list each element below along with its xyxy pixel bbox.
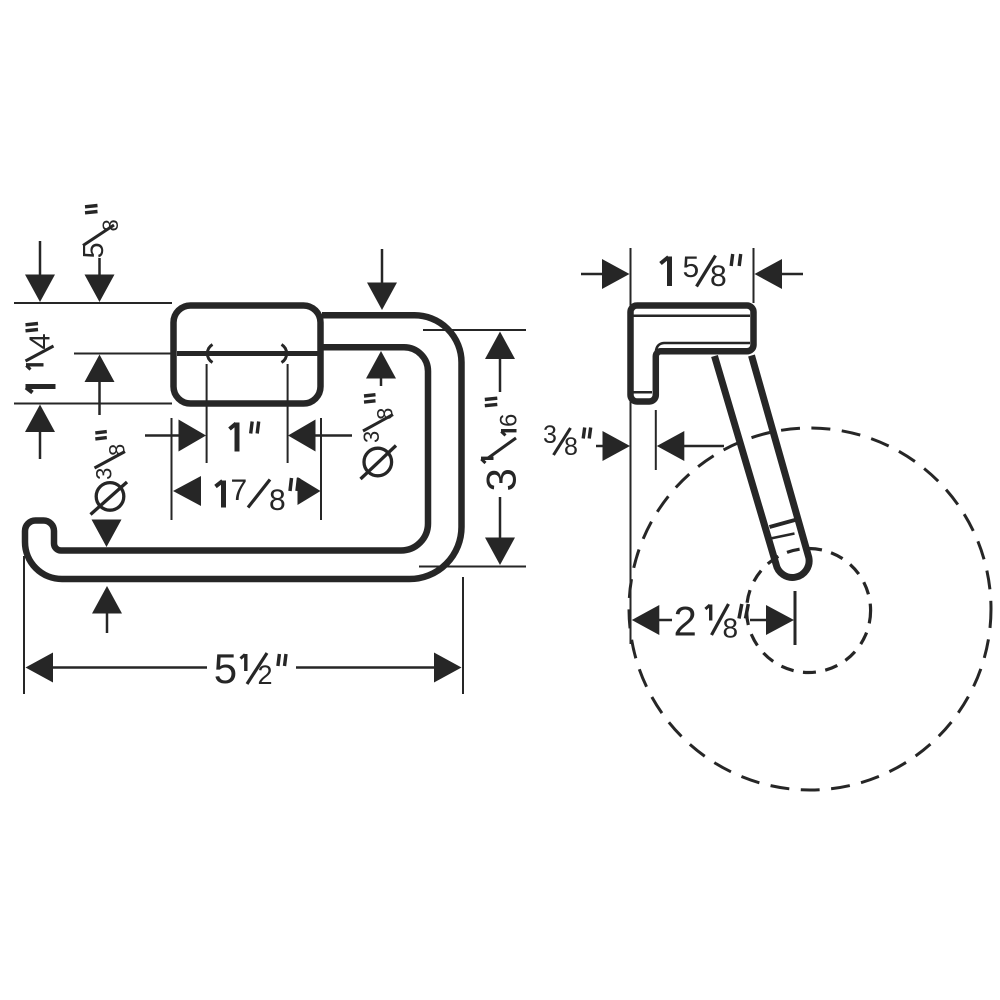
extension line 3 1/16" bottom [419, 566, 526, 568]
left view: bar outline (roll rail with hook end) [25, 315, 462, 579]
dimension 1 5/8" left arrow [581, 259, 630, 289]
svg-text:3: 3 [359, 431, 384, 443]
right view: arm cap joint thin line [771, 534, 795, 539]
dimension 5/8" upper arrow [85, 258, 115, 302]
dimension 3 1/16" bottom arrow [485, 497, 515, 565]
dimension Ø3/8" top-rail lower arrow [366, 351, 396, 386]
extension line from slot right mark down [287, 364, 289, 463]
svg-text:6: 6 [496, 414, 523, 427]
right view: bracket outline [631, 306, 754, 402]
label 1 1/4" (rotated) [25, 324, 57, 393]
dimension 3/8" left arrow [596, 431, 630, 461]
label 1" [230, 422, 259, 452]
dimension 2 1/8" tick [794, 591, 797, 645]
svg-text:8: 8 [564, 433, 578, 461]
label 3 1/16" (rotated) [478, 398, 525, 491]
dimension 2 1/8" left arrow [632, 605, 672, 635]
dimension 1 1/4" lower arrow [25, 405, 55, 460]
left view: slot right end arc [282, 345, 287, 363]
svg-text:5: 5 [683, 251, 700, 284]
dimension 1 7/8" left arrow [173, 476, 201, 506]
extension line plate right edge down [320, 418, 322, 520]
right view: wall extension line [630, 248, 632, 644]
right view: bracket extension line right [753, 248, 755, 303]
dimension 5 1/2" right arrow [296, 653, 462, 683]
dimension Ø3/8" bottom-rail upper arrow [92, 520, 122, 548]
svg-text:3: 3 [92, 468, 117, 480]
svg-text:2: 2 [258, 660, 273, 690]
dimension Ø3/8" top-rail upper arrow [367, 249, 397, 310]
dimension 3/8" right arrow [657, 431, 724, 461]
dimension 1 5/8" right arrow [755, 259, 804, 289]
svg-text:3: 3 [543, 421, 557, 449]
svg-text:8: 8 [269, 484, 286, 517]
dimension 3 1/16" top arrow [485, 332, 515, 393]
label 1 5/8" [661, 251, 741, 293]
svg-text:7: 7 [231, 474, 248, 507]
label 2 1/8" [674, 598, 749, 645]
dimension 1 7/8" right arrow [298, 477, 321, 505]
label 5/8" (rotated) [78, 206, 123, 259]
svg-text:5: 5 [214, 645, 237, 692]
svg-text:8: 8 [98, 219, 123, 231]
dimension 1" left arrow [145, 420, 206, 452]
extension line 3 1/16" top [423, 329, 526, 331]
extension line at slot center level [74, 353, 172, 355]
svg-text:2: 2 [674, 598, 697, 645]
svg-text:4: 4 [25, 333, 57, 349]
extension line 5 1/2" left [23, 556, 25, 694]
right view: holder arm outline [715, 356, 810, 578]
extension line at plate bottom level [14, 403, 172, 405]
dimension 2 1/8" right arrow [750, 605, 794, 635]
extension line at plate top level [14, 302, 172, 304]
dimension 1" right arrow [288, 420, 352, 452]
svg-text:8: 8 [104, 444, 129, 456]
small dashed circle (roll core) [747, 549, 871, 673]
extension line plate left edge down [171, 418, 173, 520]
svg-text:3: 3 [478, 468, 525, 491]
label diameter 3/8" left (rotated) [91, 432, 130, 515]
dimension 5/8" lower arrow [85, 355, 115, 416]
label 3/8" [543, 421, 591, 461]
right view: arm cap joint thick line [770, 519, 799, 527]
svg-text:8: 8 [372, 408, 397, 420]
left view: wall plate outline [174, 306, 321, 404]
svg-text:8: 8 [723, 613, 739, 644]
extension line 3/8" right [655, 410, 657, 470]
large dashed circle (paper roll) [629, 428, 991, 790]
dimension 5 1/2" left arrow [26, 653, 208, 683]
right view: wall plate bottom inner line [633, 391, 652, 394]
svg-text:8: 8 [710, 260, 727, 293]
dimension 1 1/4" upper arrow [25, 241, 55, 302]
label 1 7/8" [216, 474, 299, 517]
label diameter 3/8" right (rotated) [359, 395, 397, 479]
right view: bracket underside inner line [656, 343, 750, 352]
label 5 1/2" [214, 645, 286, 692]
left view: slot left end arc [207, 345, 212, 363]
left view: plate middle slot line [177, 351, 320, 356]
right view: bracket top inner line [633, 314, 750, 317]
extension line from slot left mark down [206, 364, 208, 463]
extension line 5 1/2" right [462, 577, 464, 694]
dimension Ø3/8" bottom-rail lower arrow [92, 586, 122, 633]
